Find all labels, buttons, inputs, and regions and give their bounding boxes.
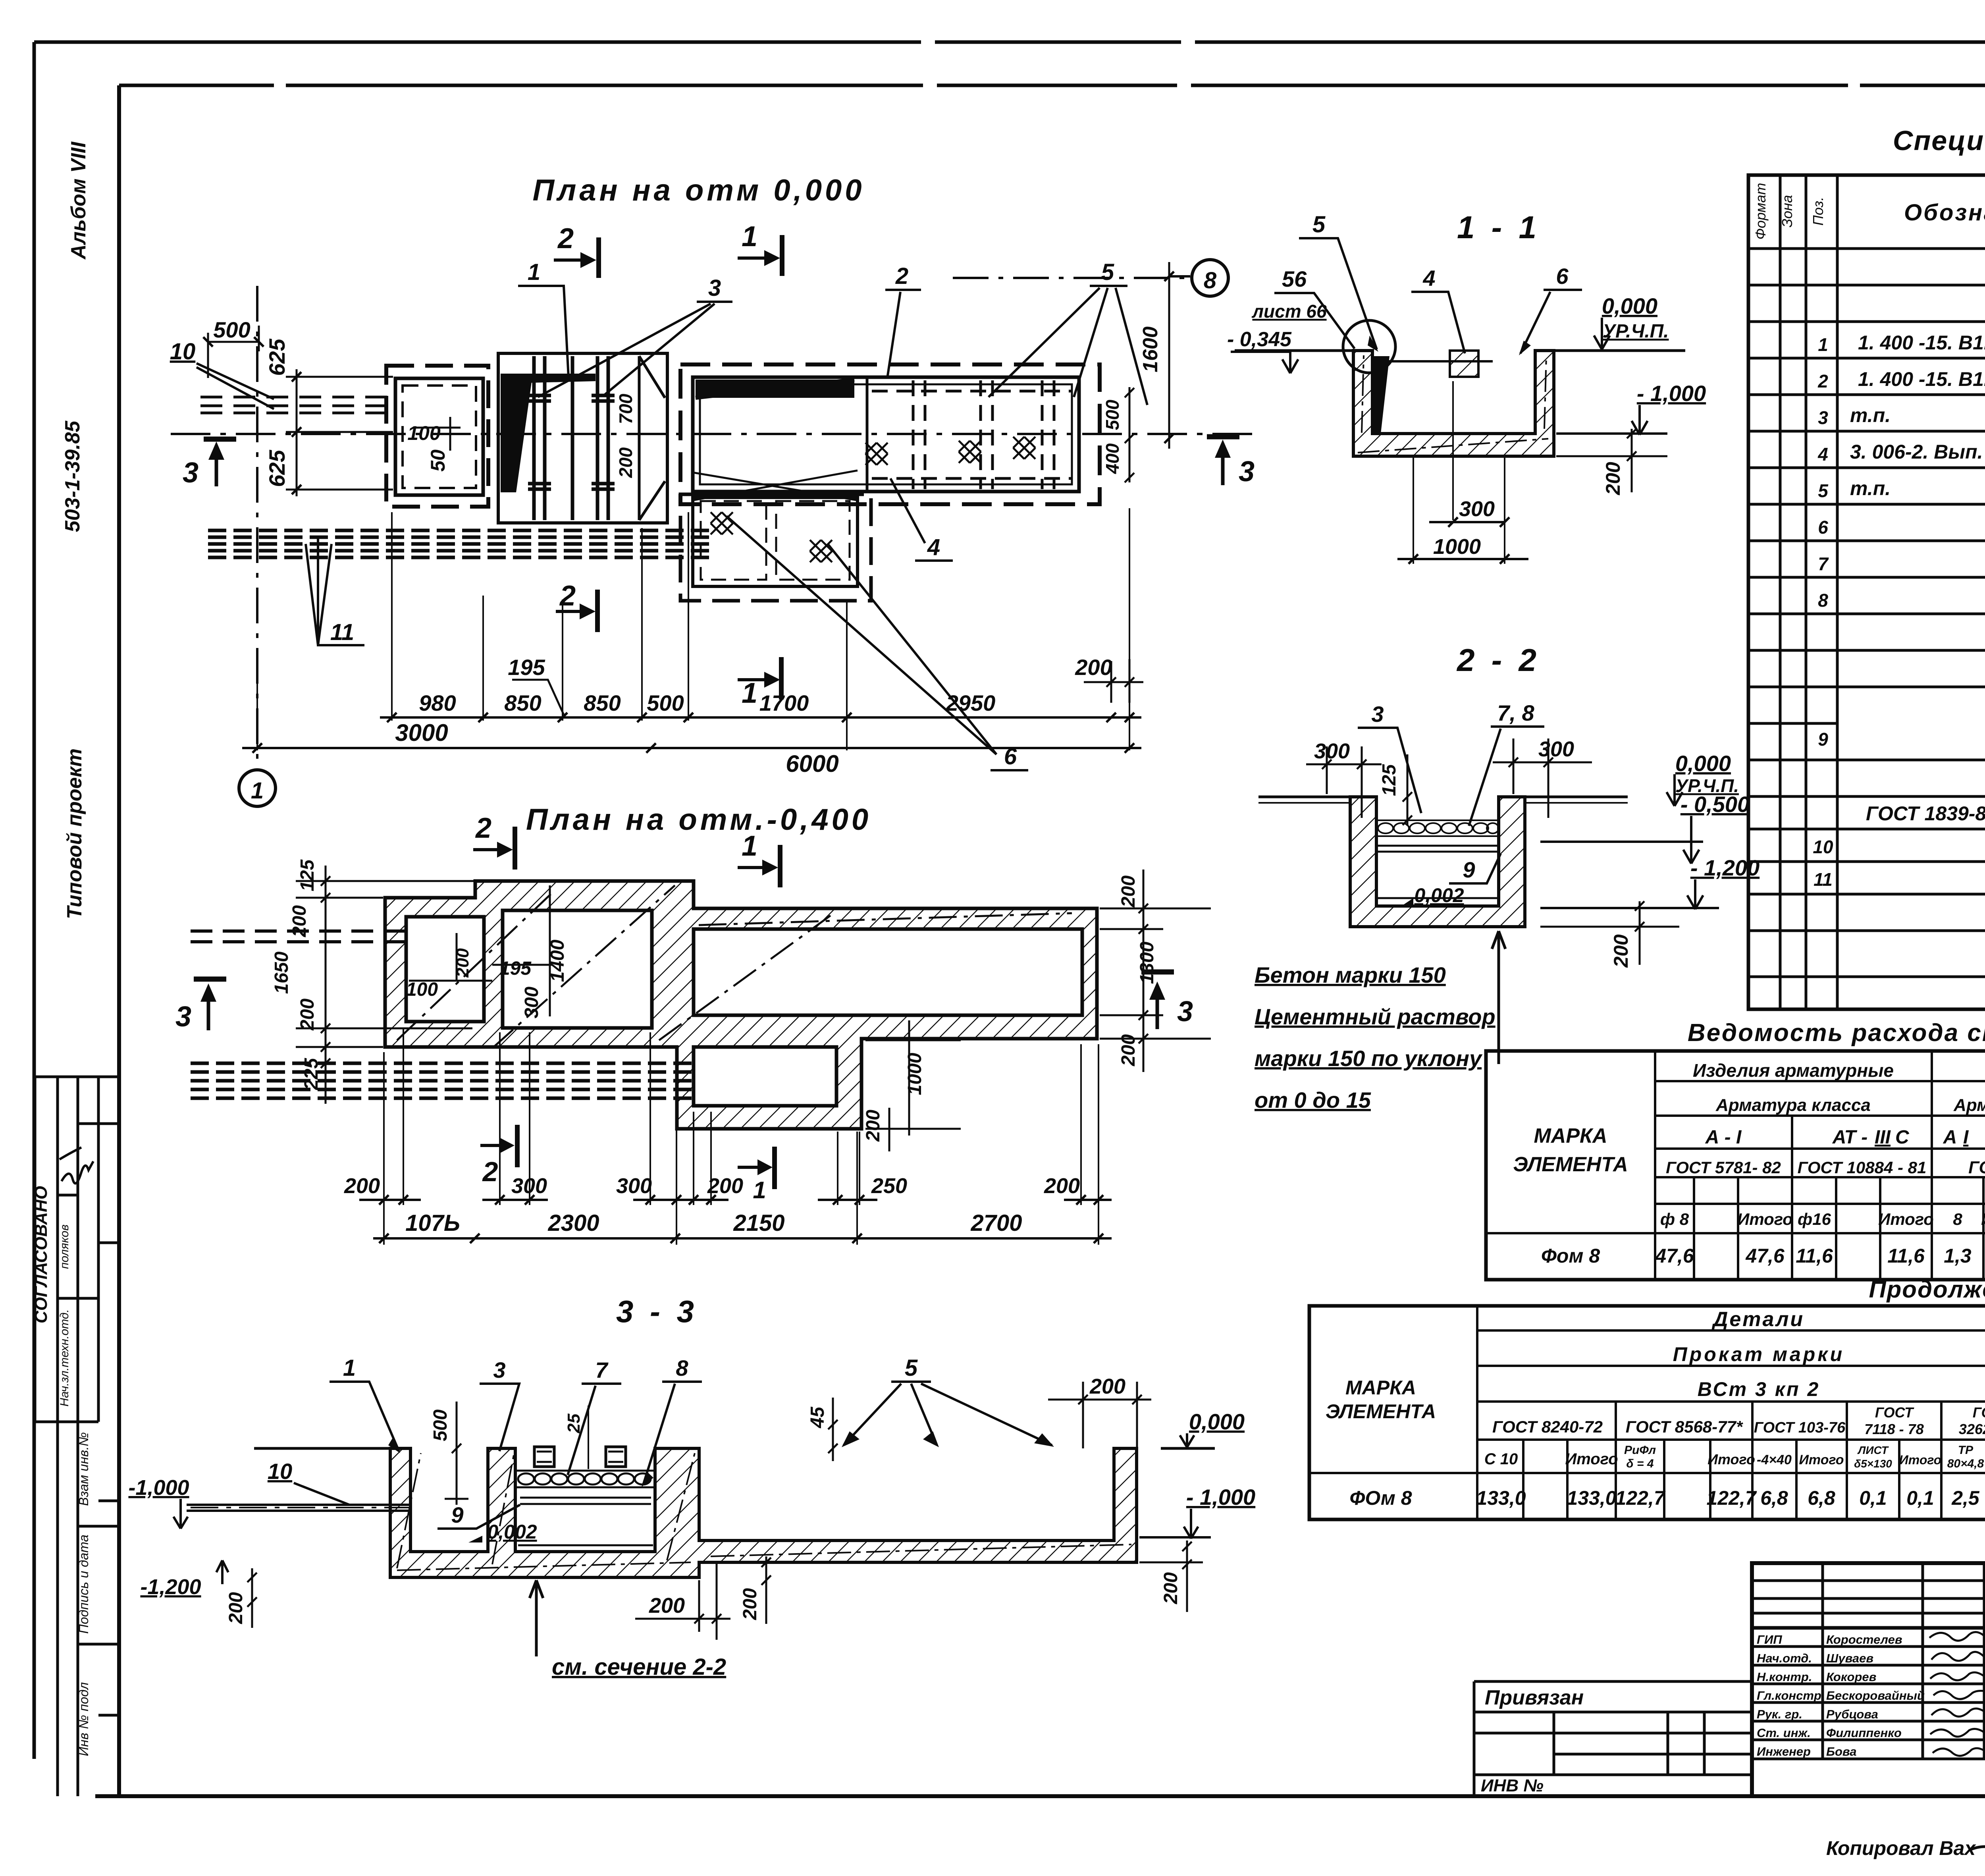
axis circle 1 — [239, 770, 276, 806]
axis circle 8 — [1192, 260, 1228, 296]
svg-text:ГОСТ 57 81- 82: ГОСТ 57 81- 82 — [1968, 1158, 1985, 1177]
svg-text:Рубцова: Рубцова — [1826, 1707, 1878, 1721]
svg-text:ГОСТ 5781- 82: ГОСТ 5781- 82 — [1666, 1158, 1781, 1177]
svg-text:47,6: 47,6 — [1655, 1245, 1694, 1267]
svg-text:3: 3 — [708, 275, 721, 301]
svg-text:Альбом VIII: Альбом VIII — [67, 141, 90, 260]
svg-text:δ5×130: δ5×130 — [1854, 1458, 1892, 1470]
axis line to circle 8 — [953, 277, 1192, 279]
svg-text:1: 1 — [251, 778, 264, 804]
svg-text:9: 9 — [1463, 857, 1475, 882]
svg-text:6,8: 6,8 — [1760, 1487, 1788, 1509]
spec table grid — [1748, 175, 1985, 1009]
svg-text:5: 5 — [1101, 259, 1114, 285]
svg-text:III: III — [1875, 1127, 1891, 1148]
svg-text:Взам инв.№: Взам инв.№ — [76, 1432, 91, 1506]
svg-text:Продолжение ведомости: Продолжение ведомости — [1869, 1276, 1985, 1303]
svg-text:Итого: Итого — [1981, 1210, 1985, 1228]
main dim chain plan4 — [373, 1234, 1112, 1243]
svg-text:Прокат марки: Прокат марки — [1673, 1343, 1844, 1365]
svg-text:Итого: Итого — [1737, 1210, 1793, 1228]
inner frame top — [119, 84, 1985, 87]
svg-text:195: 195 — [499, 958, 532, 979]
svg-text:2: 2 — [475, 812, 491, 844]
section mark 3 left plan4 — [194, 979, 226, 1030]
dims 300 1000 (1-1) — [1413, 381, 1505, 564]
svg-text:1 - 1: 1 - 1 — [1457, 210, 1540, 245]
svg-text:10: 10 — [170, 339, 196, 364]
svg-text:Коростелев: Коростелев — [1826, 1633, 1902, 1647]
frame bottom — [95, 1794, 1985, 1798]
svg-text:ф16: ф16 — [1798, 1210, 1831, 1228]
svg-text:47,6: 47,6 — [1745, 1245, 1785, 1267]
section mark 2 bottom — [556, 590, 597, 632]
svg-text:Зона: Зона — [1779, 195, 1795, 228]
svg-text:- 1,200: - 1,200 — [1690, 855, 1760, 880]
svg-text:133,0: 133,0 — [1476, 1487, 1526, 1509]
spec row 8 — [1818, 584, 1985, 611]
svg-text:3: 3 — [183, 457, 198, 489]
svg-text:Бескоровайный: Бескоровайный — [1826, 1689, 1925, 1702]
svg-text:8: 8 — [1818, 590, 1828, 611]
svg-text:200: 200 — [1160, 1572, 1181, 1604]
svg-text:300: 300 — [1538, 737, 1574, 761]
svg-text:0,1: 0,1 — [1906, 1487, 1934, 1509]
svg-text:8: 8 — [1204, 268, 1217, 293]
svg-text:80×4,8: 80×4,8 — [1947, 1457, 1984, 1470]
svg-text:1300: 1300 — [1137, 941, 1158, 984]
svg-text:11,6: 11,6 — [1887, 1245, 1925, 1267]
svg-text:Ст. инж.: Ст. инж. — [1757, 1726, 1811, 1740]
wall dashdot 1-1 — [1358, 355, 1548, 453]
svg-text:200: 200 — [1602, 462, 1624, 496]
svg-text:СОГЛАСОВАНО: СОГЛАСОВАНО — [31, 1186, 51, 1323]
prodolzhenie subhead row — [1484, 1444, 1985, 1470]
svg-text:Привязан: Привязан — [1485, 1686, 1584, 1709]
pipes dashed lower left — [191, 1063, 699, 1098]
svg-text:3: 3 — [1239, 456, 1255, 488]
right block top black band — [696, 380, 854, 398]
staff signatures — [1929, 1632, 1985, 1756]
svg-text:- 1,000: - 1,000 — [1186, 1485, 1255, 1510]
svg-text:100: 100 — [406, 979, 438, 1000]
svg-text:11: 11 — [1813, 869, 1833, 890]
svg-text:ГОСТ 1839-80: ГОСТ 1839-80 — [1866, 802, 1985, 825]
svg-text:- 0,345: - 0,345 — [1227, 328, 1292, 351]
svg-text:Нач.зл.техн.отд.: Нач.зл.техн.отд. — [58, 1309, 71, 1406]
extension lines plan4 — [384, 1028, 1098, 1245]
svg-text:ИНВ №: ИНВ № — [1481, 1776, 1544, 1795]
middle block left black wedge — [501, 374, 533, 492]
svg-text:0,002: 0,002 — [487, 1521, 537, 1543]
pipes into left box — [200, 397, 395, 413]
svg-text:122,7: 122,7 — [1615, 1487, 1665, 1509]
svg-text:I: I — [1963, 1127, 1969, 1148]
svg-text:Типовой проект: Типовой проект — [63, 748, 86, 919]
svg-text:300: 300 — [1314, 739, 1350, 763]
svg-text:250: 250 — [871, 1174, 907, 1198]
svg-text:ГОСТ: ГОСТ — [1875, 1404, 1914, 1421]
svg-text:АТ -: АТ - — [1832, 1127, 1867, 1148]
svg-text:1. 400 -15. В1. 550 - 05: 1. 400 -15. В1. 550 - 05 — [1858, 368, 1985, 390]
svg-text:ТР: ТР — [1958, 1444, 1973, 1457]
svg-text:Бетон марки 150: Бетон марки 150 — [1255, 962, 1446, 987]
svg-text:Бова: Бова — [1826, 1745, 1856, 1758]
svg-text:200: 200 — [344, 1174, 380, 1198]
svg-text:500: 500 — [647, 690, 684, 715]
svg-text:Рук. гр.: Рук. гр. — [1757, 1707, 1802, 1721]
U-section body 1-1 — [1353, 351, 1554, 456]
svg-text:7: 7 — [1818, 553, 1829, 574]
svg-text:500: 500 — [1102, 399, 1123, 430]
section mark 2 top — [473, 827, 515, 870]
svg-text:т.п.: т.п. — [1850, 477, 1891, 499]
svg-text:625: 625 — [264, 338, 289, 376]
U-section body 2-2 — [1350, 797, 1525, 927]
pit2 posts 3-3 — [534, 1447, 554, 1467]
extension lines plan0 — [257, 508, 1129, 750]
svg-text:25: 25 — [564, 1413, 584, 1433]
svg-text:7, 8: 7, 8 — [1497, 700, 1534, 725]
svg-text:- 0,500: - 0,500 — [1681, 792, 1750, 817]
svg-text:поляков: поляков — [58, 1224, 71, 1269]
svg-text:лист 66: лист 66 — [1251, 301, 1327, 322]
svg-text:Шуваев: Шуваев — [1826, 1651, 1873, 1665]
svg-text:3 - 3: 3 - 3 — [616, 1294, 698, 1329]
svg-text:-1,200: -1,200 — [140, 1575, 201, 1599]
below-center block — [693, 494, 858, 586]
svg-text:Кокорев: Кокорев — [1826, 1670, 1876, 1684]
spec row 7 — [1818, 548, 1985, 574]
svg-text:1650: 1650 — [271, 951, 292, 994]
svg-text:3000: 3000 — [395, 719, 448, 746]
svg-text:9: 9 — [1818, 729, 1828, 750]
svg-text:300: 300 — [521, 987, 542, 1018]
svg-text:200: 200 — [289, 905, 310, 937]
svg-text:200: 200 — [740, 1588, 761, 1620]
svg-text:Обозначение: Обозначение — [1904, 200, 1985, 226]
svg-text:225: 225 — [301, 1058, 322, 1090]
section mark 3 left — [204, 439, 236, 486]
svg-text:-1,000: -1,000 — [128, 1476, 189, 1500]
svg-text:1000: 1000 — [1433, 535, 1481, 559]
svg-text:2: 2 — [559, 580, 576, 612]
svg-text:107Ь: 107Ь — [405, 1210, 460, 1236]
svg-text:А - I: А - I — [1705, 1127, 1742, 1148]
svg-text:2300: 2300 — [547, 1210, 599, 1236]
svg-text:Арматура класса: Арматура класса — [1715, 1095, 1871, 1115]
right block X hatches — [865, 443, 888, 465]
svg-text:200: 200 — [225, 1592, 247, 1624]
svg-text:11,6: 11,6 — [1796, 1245, 1833, 1267]
wall dashdot diagonals — [397, 885, 1072, 1048]
svg-text:ЭЛЕМЕНТА: ЭЛЕМЕНТА — [1513, 1153, 1628, 1176]
svg-text:-4×40: -4×40 — [1757, 1452, 1792, 1467]
ground line 1-1 — [1235, 349, 1685, 352]
svg-text:ГИП: ГИП — [1757, 1633, 1782, 1647]
svg-text:2: 2 — [1817, 371, 1828, 391]
section mark 2 top — [554, 237, 599, 278]
svg-text:0,000: 0,000 — [1602, 293, 1657, 318]
svg-text:400: 400 — [1102, 443, 1123, 474]
ground line 2-2 — [1258, 796, 1628, 798]
svg-text:45: 45 — [807, 1406, 828, 1429]
svg-text:5: 5 — [1818, 480, 1829, 501]
svg-text:300: 300 — [1459, 497, 1495, 521]
svg-text:6,8: 6,8 — [1808, 1487, 1835, 1509]
G8 plan -0.400 — [175, 803, 1211, 1245]
svg-text:195: 195 — [508, 655, 545, 680]
svg-text:200: 200 — [297, 999, 318, 1031]
svg-text:ЛИСТ: ЛИСТ — [1857, 1444, 1889, 1456]
svg-text:200: 200 — [615, 447, 636, 478]
svg-text:300: 300 — [511, 1174, 547, 1198]
svg-text:10: 10 — [268, 1459, 292, 1484]
prodolzhenie grid — [1309, 1306, 1985, 1519]
svg-text:0,002: 0,002 — [1414, 884, 1464, 906]
diagonal cross lines — [693, 470, 858, 500]
svg-text:980: 980 — [419, 690, 456, 715]
prodolzhenie data row — [1349, 1487, 1985, 1509]
svg-text:3: 3 — [1818, 407, 1828, 428]
svg-text:125: 125 — [297, 859, 318, 891]
svg-text:200: 200 — [649, 1594, 685, 1618]
svg-text:Инв № подл: Инв № подл — [76, 1682, 91, 1756]
svg-text:3. 006-2. Вып.: 3. 006-2. Вып. — [1850, 441, 1983, 463]
G6 title block — [1474, 1563, 1985, 1867]
svg-text:Итого: Итого — [1707, 1451, 1755, 1467]
svg-text:Арматура класса: Арматура класса — [1953, 1095, 1985, 1115]
svg-text:200: 200 — [1044, 1174, 1080, 1198]
svg-text:ф 8: ф 8 — [1660, 1210, 1689, 1228]
svg-text:10: 10 — [1813, 837, 1833, 857]
svg-text:125: 125 — [1379, 764, 1400, 796]
svg-text:марки 150 по уклону: марки 150 по уклону — [1255, 1046, 1483, 1071]
svg-text:4: 4 — [1422, 266, 1435, 291]
svg-text:Фом 8: Фом 8 — [1541, 1245, 1600, 1267]
section mark 1 top — [738, 845, 780, 887]
pipe into pit 3-3 — [187, 1505, 410, 1511]
detail circle 1-1 — [1343, 320, 1395, 373]
svg-text:200: 200 — [863, 1110, 884, 1142]
svg-text:ГОСТ 8568-77*: ГОСТ 8568-77* — [1626, 1417, 1743, 1436]
svg-text:Инженер: Инженер — [1757, 1745, 1811, 1758]
svg-text:План на отм 0,000: План на отм 0,000 — [532, 174, 865, 207]
svg-text:2: 2 — [557, 223, 574, 255]
svg-text:1: 1 — [742, 830, 757, 862]
spec row 2 — [1817, 365, 1985, 391]
middle block funnel — [639, 356, 665, 520]
svg-text:1. 400 -15. В1. 550 - 04: 1. 400 -15. В1. 550 - 04 — [1858, 332, 1985, 354]
svg-text:4: 4 — [927, 534, 940, 560]
svg-text:0,000: 0,000 — [1675, 751, 1731, 776]
svg-text:3: 3 — [175, 1001, 191, 1033]
right block divider solid — [866, 377, 869, 492]
G7 plan 0.000 — [170, 174, 1255, 806]
svg-text:Итого: Итого — [1565, 1450, 1618, 1468]
right block dividers dashed — [872, 380, 1072, 489]
svg-text:Итого: Итого — [1899, 1453, 1941, 1467]
svg-text:5: 5 — [905, 1355, 918, 1381]
title block grid — [1752, 1563, 1985, 1796]
svg-text:3: 3 — [493, 1357, 505, 1382]
svg-text:УР.Ч.П.: УР.Ч.П. — [1602, 321, 1669, 342]
svg-text:С 10: С 10 — [1484, 1450, 1518, 1468]
middle block outer — [498, 353, 667, 523]
svg-text:56: 56 — [1282, 266, 1307, 291]
up arrow (2-2) — [1492, 931, 1505, 1064]
svg-text:Поз.: Поз. — [1810, 197, 1826, 226]
svg-text:1000: 1000 — [904, 1053, 925, 1095]
G5 prodolzhenie table — [1309, 1276, 1985, 1519]
svg-text:ГОСТ 103-76: ГОСТ 103-76 — [1754, 1419, 1846, 1436]
pit2 detail 3-3 — [515, 1471, 655, 1545]
interior plate lines 2-2 — [1376, 846, 1499, 852]
svg-text:Подпись и дата: Подпись и дата — [76, 1535, 91, 1634]
vedomost subhead row — [1660, 1202, 1985, 1232]
svg-text:- 1,000: - 1,000 — [1637, 381, 1706, 406]
svg-text:1: 1 — [343, 1355, 356, 1381]
svg-text:С: С — [1895, 1127, 1910, 1148]
svg-text:А: А — [1943, 1127, 1957, 1148]
spec row 1 — [1818, 328, 1985, 355]
svg-text:3: 3 — [1177, 996, 1193, 1028]
staff rows — [1757, 1633, 1925, 1758]
vedomost grid — [1486, 1051, 1985, 1280]
svg-text:1: 1 — [742, 221, 757, 253]
svg-text:ФОм 8: ФОм 8 — [1349, 1487, 1412, 1509]
right block inner line — [700, 384, 1072, 484]
inner frame left — [117, 85, 121, 1796]
svg-text:МАРКА: МАРКА — [1345, 1377, 1416, 1399]
left box inner dashed — [403, 386, 476, 488]
svg-text:200: 200 — [1118, 875, 1139, 908]
interior gravel band 2-2 — [1376, 820, 1499, 836]
svg-text:1: 1 — [753, 1177, 766, 1203]
svg-text:Ведомость расхода стали на: Ведомость расхода стали на КТП 2, кг — [1688, 1019, 1985, 1047]
svg-text:700: 700 — [615, 393, 636, 424]
svg-text:ГОСТ 8240-72: ГОСТ 8240-72 — [1492, 1417, 1603, 1436]
svg-text:Детали: Детали — [1711, 1308, 1804, 1331]
svg-text:1,3: 1,3 — [1944, 1245, 1972, 1267]
svg-text:1: 1 — [742, 677, 757, 709]
vedomost data row — [1541, 1245, 1985, 1267]
svg-text:200: 200 — [1075, 655, 1112, 680]
svg-text:200: 200 — [707, 1174, 743, 1198]
wall dashdot 3-3 — [397, 1453, 1131, 1570]
walls hatched — [385, 881, 1097, 1129]
embed plate 4 hatched square 1-1 — [1450, 351, 1478, 377]
horizontal centerline — [171, 433, 1255, 435]
svg-text:503-1-39.85: 503-1-39.85 — [61, 420, 84, 532]
svg-text:300: 300 — [616, 1174, 652, 1198]
ground line 3-3 — [254, 1447, 1215, 1450]
svg-text:7: 7 — [595, 1357, 609, 1382]
left box mid solid — [395, 378, 483, 495]
svg-text:δ = 4: δ = 4 — [1626, 1457, 1654, 1470]
svg-text:6: 6 — [1818, 517, 1828, 538]
svg-text:500: 500 — [430, 1409, 451, 1441]
svg-text:План на отм.-0,400: План на отм.-0,400 — [526, 803, 871, 837]
svg-text:Изделия арматурные: Изделия арматурные — [1693, 1060, 1894, 1081]
small dim chain plan4 — [359, 1195, 1112, 1205]
section mark 2 bottom plan4 — [480, 1125, 517, 1167]
svg-text:850: 850 — [584, 690, 621, 715]
outer border top — [34, 40, 1985, 44]
pipes dashed top left — [191, 931, 406, 942]
svg-text:ГОСТ 10884 - 81: ГОСТ 10884 - 81 — [1798, 1158, 1927, 1177]
axis line vertical — [256, 286, 258, 770]
svg-text:Филиппенко: Филиппенко — [1826, 1726, 1902, 1740]
G4 vedomost table — [1486, 1019, 1985, 1280]
spec row 5 — [1818, 474, 1985, 501]
right block outer dashed — [680, 364, 1100, 504]
right block solid — [693, 377, 1079, 492]
svg-text:7118 - 78: 7118 - 78 — [1864, 1421, 1923, 1437]
svg-text:1700: 1700 — [759, 690, 809, 715]
section mark 3 right plan4 — [1141, 972, 1174, 1029]
outer border left — [33, 42, 36, 1759]
section mark 1 top — [738, 235, 782, 276]
svg-text:5: 5 — [1312, 212, 1326, 237]
G3 specification table — [1748, 125, 1985, 1009]
svg-text:Н.контр.: Н.контр. — [1757, 1670, 1812, 1684]
svg-text:1600: 1600 — [1139, 326, 1162, 372]
svg-text:8: 8 — [676, 1355, 688, 1380]
svg-text:ВСт 3 кп 2: ВСт 3 кп 2 — [1698, 1378, 1820, 1400]
lower pipe dashes — [208, 530, 711, 557]
svg-text:от 0 до 15: от 0 до 15 — [1255, 1087, 1371, 1112]
svg-text:3: 3 — [1371, 702, 1384, 727]
svg-text:Итого: Итого — [1878, 1210, 1934, 1228]
dim chain 1 — [380, 713, 1141, 722]
svg-text:Формат: Формат — [1752, 183, 1769, 240]
svg-text:200: 200 — [1089, 1375, 1125, 1398]
G11 section 3-3 — [128, 1294, 1255, 1680]
svg-text:Спецификация фундамента ФОм: Спецификация фундамента ФОм 8 — [1893, 125, 1985, 156]
privyazan box — [1474, 1681, 1752, 1796]
note text (2-2) — [1255, 962, 1495, 1112]
svg-text:6: 6 — [1556, 264, 1569, 289]
svg-text:2150: 2150 — [733, 1210, 784, 1236]
section mark 1 bottom plan4 — [738, 1147, 775, 1189]
svg-text:РиФл: РиФл — [1624, 1444, 1656, 1457]
svg-text:2: 2 — [482, 1156, 498, 1187]
dim chain 2 — [242, 743, 1141, 753]
svg-text:0,1: 0,1 — [1859, 1487, 1887, 1509]
svg-text:ГОСТ: ГОСТ — [1973, 1404, 1985, 1421]
svg-text:50: 50 — [427, 449, 449, 472]
svg-text:4: 4 — [1817, 444, 1828, 465]
section body 3-3 hatched — [390, 1448, 1137, 1577]
middle block top black band — [501, 374, 595, 384]
svg-text:МАРКА: МАРКА — [1534, 1124, 1607, 1147]
svg-text:200: 200 — [1610, 934, 1632, 968]
G2 left sidebar stamps — [35, 1077, 119, 1796]
svg-text:Цементный раствор: Цементный раствор — [1255, 1004, 1495, 1029]
svg-text:6000: 6000 — [786, 750, 838, 777]
svg-text:2700: 2700 — [970, 1210, 1022, 1236]
svg-text:2: 2 — [895, 263, 908, 289]
svg-text:625: 625 — [264, 449, 289, 487]
svg-text:100: 100 — [407, 422, 441, 444]
svg-text:ЭЛЕМЕНТА: ЭЛЕМЕНТА — [1326, 1400, 1436, 1423]
svg-text:2,5: 2,5 — [1951, 1487, 1980, 1509]
svg-text:Гл.констр.: Гл.констр. — [1757, 1689, 1825, 1702]
left box assembly: outer dashed — [386, 366, 488, 507]
svg-text:0,000: 0,000 — [1189, 1409, 1245, 1434]
svg-text:Копировал Вах: Копировал Вах — [1826, 1837, 1976, 1859]
